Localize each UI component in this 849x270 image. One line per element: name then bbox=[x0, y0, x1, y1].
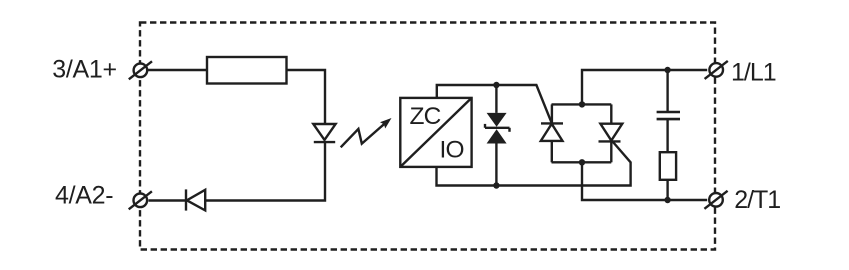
svg-text:3/A1+: 3/A1+ bbox=[52, 55, 117, 83]
svg-text:ZC: ZC bbox=[410, 103, 441, 130]
svg-text:1/L1: 1/L1 bbox=[731, 58, 776, 86]
svg-text:4/A2-: 4/A2- bbox=[55, 181, 113, 209]
svg-text:2/T1: 2/T1 bbox=[734, 186, 780, 214]
svg-text:IO: IO bbox=[440, 137, 464, 164]
